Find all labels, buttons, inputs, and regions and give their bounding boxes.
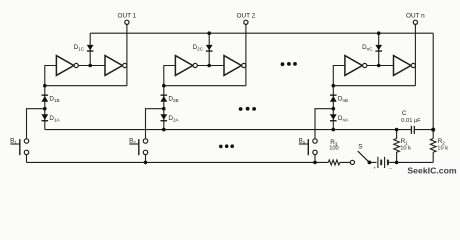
inverter 1B	[105, 56, 122, 76]
bubble inverter 1A	[74, 63, 78, 67]
junction dot diode midpoint stage n	[332, 107, 336, 111]
svg-text:S: S	[358, 144, 363, 151]
inverter nA	[345, 56, 362, 76]
junction dot R1 top	[395, 128, 399, 132]
pushbutton B1	[10, 139, 28, 155]
diode D2B	[160, 95, 167, 102]
junction dot Bn at bottom rail	[313, 161, 317, 165]
wire OUT n column	[414, 24, 416, 85]
ellipsis dots button row	[219, 144, 234, 148]
switch S terminal circle	[350, 160, 354, 164]
svg-text:OUT 2: OUT 2	[237, 13, 256, 20]
junction dot B2 at bottom rail	[144, 161, 148, 165]
wire OUT 1 column	[126, 24, 128, 85]
ellipsis dots inverter row	[281, 62, 297, 66]
diode D1A	[41, 114, 48, 121]
svg-text:100: 100	[329, 146, 339, 152]
switch S contact dot	[368, 161, 372, 165]
pushbutton Bn	[299, 139, 317, 155]
svg-text:10 k: 10 k	[400, 146, 411, 152]
wire feedback stage 2	[164, 85, 246, 87]
wire DnC column	[378, 33, 380, 65]
junction dot diode midpoint stage 2	[162, 107, 166, 111]
wire inverter interstage stage n	[367, 65, 394, 67]
junction dot capacitor right	[431, 128, 435, 132]
ellipsis dots node row	[239, 107, 256, 111]
junction dot DnC at top rail	[377, 31, 381, 35]
node junction dot at inverter 2 output	[207, 64, 211, 68]
wire D2C column	[208, 33, 210, 65]
resistor R1	[394, 130, 400, 163]
node junction dot at inverter n output	[377, 64, 381, 68]
svg-text:OUT 1: OUT 1	[118, 13, 137, 20]
terminal OUT n	[413, 20, 417, 24]
wire node-to-button jog stage n	[315, 109, 333, 139]
wire feedback stage n	[333, 85, 415, 87]
terminal OUT 1	[125, 20, 129, 24]
inverter 2B	[224, 56, 241, 76]
right vertical wire	[432, 33, 434, 162]
diode D2C	[206, 45, 213, 52]
junction dot feedback stage 2	[162, 84, 166, 88]
wire feedback stage 1	[45, 85, 127, 87]
wire input jog stage 2	[164, 66, 176, 130]
wire node-to-button jog stage 1	[27, 109, 45, 139]
inverter nB	[394, 56, 411, 76]
svg-text:SeekIC.com: SeekIC.com	[407, 166, 457, 176]
battery	[378, 157, 388, 168]
bubble inverter 2A	[193, 63, 197, 67]
junction dot D2C at top rail	[207, 31, 211, 35]
bubble inverter nA	[363, 63, 367, 67]
diode DnA	[330, 114, 337, 121]
diode D1B	[41, 95, 48, 102]
pushbutton B2	[129, 139, 147, 155]
inverter 2A	[175, 56, 192, 76]
node junction dot at inverter 1 output	[88, 64, 92, 68]
wire node-to-button jog stage 2	[146, 109, 164, 139]
resistor R2	[430, 139, 436, 153]
diode DnB	[330, 95, 337, 102]
wire input jog stage n	[333, 66, 345, 130]
svg-text:+: +	[373, 166, 376, 171]
capacitor C	[411, 126, 414, 134]
junction dot DnA at rail	[332, 128, 336, 132]
svg-text:C: C	[402, 110, 407, 117]
bubble inverter 1B	[123, 63, 127, 67]
diode DnC	[375, 45, 382, 52]
wire button-to-rail stage 2	[145, 155, 147, 163]
svg-text:–: –	[389, 166, 392, 171]
bottom supply rail	[27, 161, 434, 163]
junction dot feedback stage n	[332, 84, 336, 88]
inverter 1A	[56, 56, 73, 76]
svg-text:0.01 µF: 0.01 µF	[401, 118, 421, 124]
wire button-to-rail stage 1	[26, 155, 28, 163]
bubble inverter nB	[411, 63, 415, 67]
wire button-to-rail stage n	[314, 155, 316, 163]
junction dot D2A at rail	[162, 128, 166, 132]
lower diode rail	[45, 129, 433, 131]
wire D1C column	[89, 33, 91, 65]
junction dot diode midpoint stage 1	[43, 107, 47, 111]
resistor R3	[328, 160, 340, 165]
top rail (diode common line)	[90, 32, 433, 34]
diode D2A	[160, 114, 167, 121]
wire OUT 2 column	[245, 24, 247, 85]
diode D1C	[87, 45, 94, 52]
svg-text:10 k: 10 k	[437, 146, 448, 152]
terminal OUT 2	[244, 20, 248, 24]
switch S lever	[358, 151, 369, 162]
wire inverter interstage stage 1	[78, 65, 105, 67]
bubble inverter 2B	[242, 63, 246, 67]
wire inverter interstage stage 2	[197, 65, 224, 67]
svg-text:OUT n: OUT n	[406, 13, 425, 20]
junction dot R1 bottom	[395, 161, 399, 165]
wire input jog stage 1	[45, 66, 57, 130]
junction dot feedback stage 1	[43, 84, 47, 88]
